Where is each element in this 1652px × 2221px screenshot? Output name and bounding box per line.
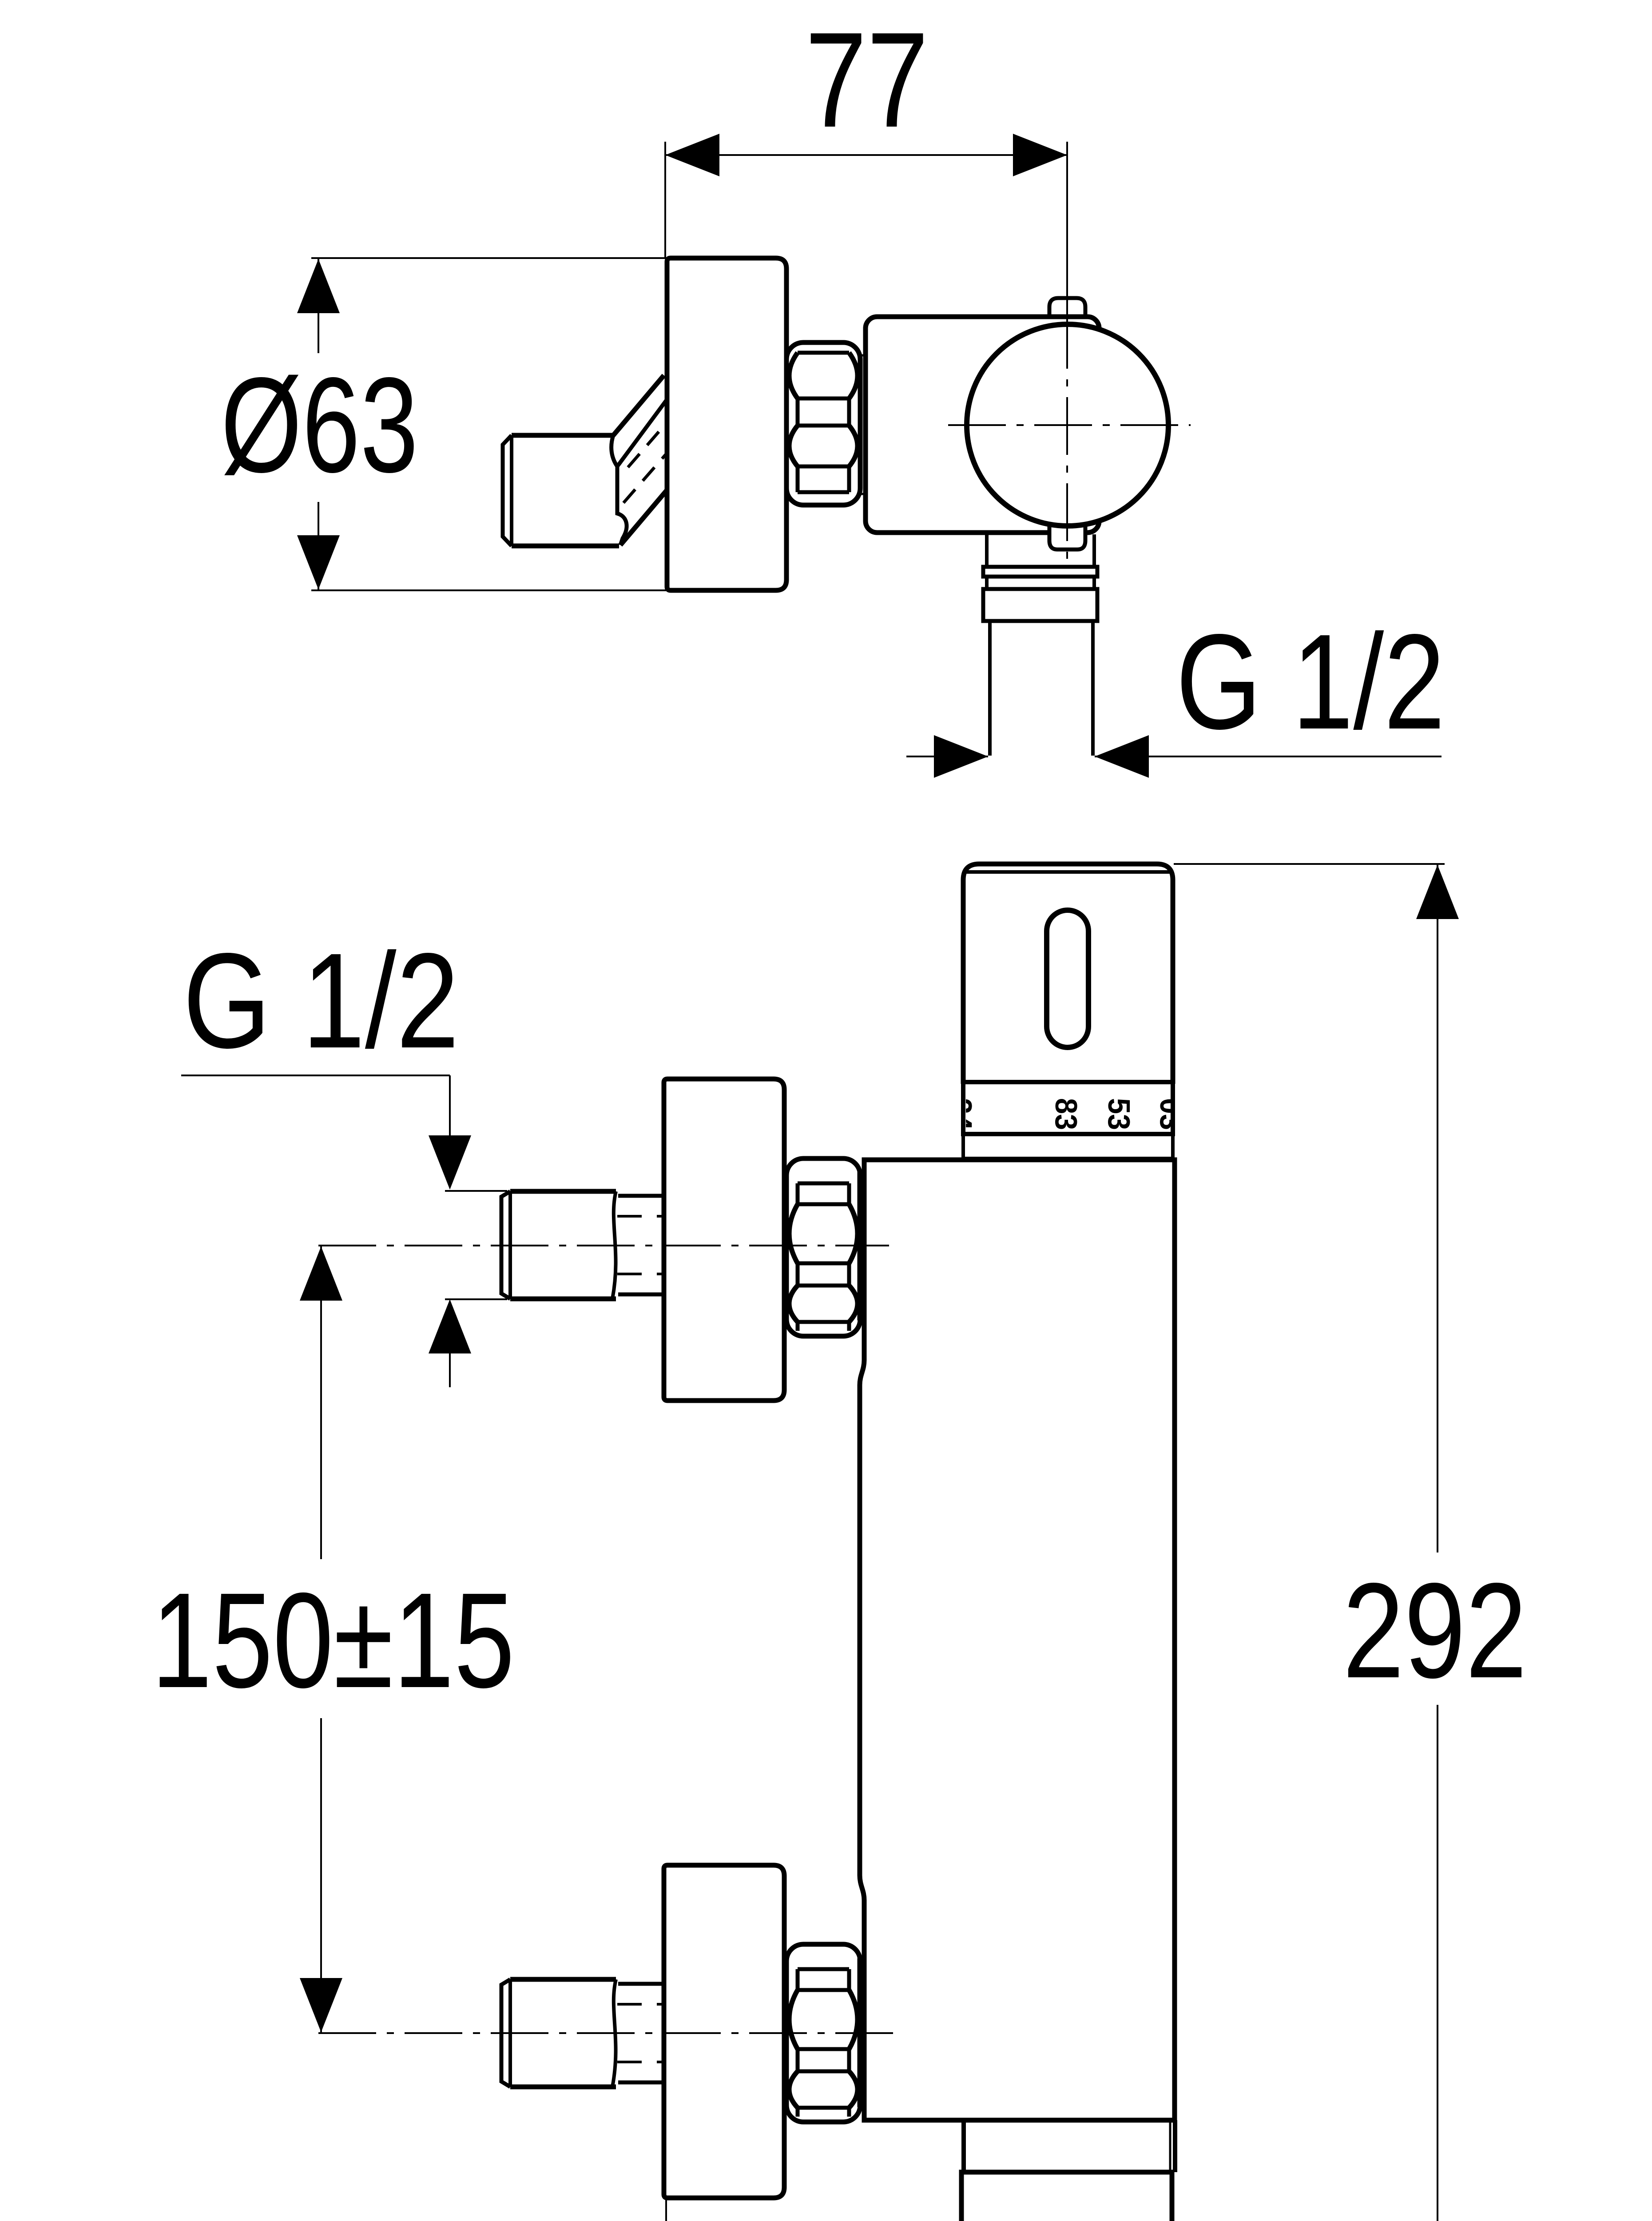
svg-text:G 1/2: G 1/2 [1176, 606, 1445, 757]
centerline upper inlet [318, 1245, 889, 1246]
dimension 77: dimension line [665, 154, 1067, 156]
lower washer (front view) [858, 1959, 864, 2106]
valve body (top view) [866, 317, 1099, 533]
dimension Ø63: dimension line [318, 258, 319, 590]
lower hex nut (front view) [786, 1944, 860, 2122]
dimension 150±15: arrowheads [300, 1246, 342, 1301]
dimension 292: dimension line [1437, 865, 1438, 2221]
hex nut (top view) [786, 342, 860, 505]
upper washer (front view) [858, 1173, 864, 1319]
centerline vertical (top view) [1066, 311, 1068, 563]
dimension 77: arrowheads [665, 134, 719, 176]
dimension 150±15: dimension line [320, 1246, 322, 2032]
upper wall plate (front view) [664, 1079, 784, 1401]
dimension G 1/2 (front): extension ticks [445, 1191, 507, 1387]
svg-text:77: 77 [805, 4, 929, 155]
outlet body (front view) [961, 2172, 1172, 2221]
dimension 292: arrowheads [1416, 865, 1459, 919]
handle lever arm (top view) [612, 375, 667, 545]
bottom stem knob (top view) [1051, 529, 1084, 552]
thermostat knob cap (front view) [963, 864, 1173, 1084]
upper inlet pipe (front view) [501, 1191, 663, 1299]
cartridge circle (top view) [967, 324, 1168, 526]
upper hex nut (front view) [786, 1158, 860, 1336]
dimension G 1/2 (front): leader lines [181, 1075, 450, 1135]
centerline lower inlet [318, 2032, 894, 2034]
dimension 97: extension lines [666, 2200, 1176, 2221]
outlet neck (front view) [964, 2120, 1175, 2172]
dimension Ø63: arrowheads [297, 259, 340, 313]
svg-text:83: 83 [1049, 1098, 1084, 1130]
washer (top view) [860, 355, 866, 494]
oval slot in knob [1047, 910, 1088, 1047]
svg-text:292: 292 [1343, 1555, 1527, 1706]
dimension 292: extension lines [1171, 864, 1445, 2221]
dimension G 1/2 (top view): arrowheads [934, 735, 988, 778]
svg-text:53: 53 [1102, 1098, 1136, 1130]
dimension Ø63: extension lines [311, 258, 667, 590]
main body (front view) [860, 1160, 1175, 2120]
wall plate (top view) [667, 258, 786, 590]
outlet pipe (top view) [983, 534, 1097, 756]
top stem knob (top view) [1049, 298, 1085, 318]
dimension G 1/2 (front): arrowheads [429, 1135, 471, 1190]
lower inlet pipe (front view) [501, 1979, 663, 2087]
svg-text:Ø63: Ø63 [221, 349, 418, 501]
dimension G 1/2 (top view): dimension lines [906, 756, 1442, 757]
handle knob block (top view) [503, 435, 619, 546]
lower wall plate (front view) [664, 1865, 784, 2198]
ring below scale band [963, 1134, 1173, 1158]
dimension 77: extension lines [665, 142, 1067, 311]
centerline horizontal (top view) [948, 424, 1191, 426]
svg-text:G 1/2: G 1/2 [183, 925, 459, 1076]
temperature scale band [963, 1082, 1173, 1134]
svg-text:150±15: 150±15 [151, 1564, 515, 1716]
